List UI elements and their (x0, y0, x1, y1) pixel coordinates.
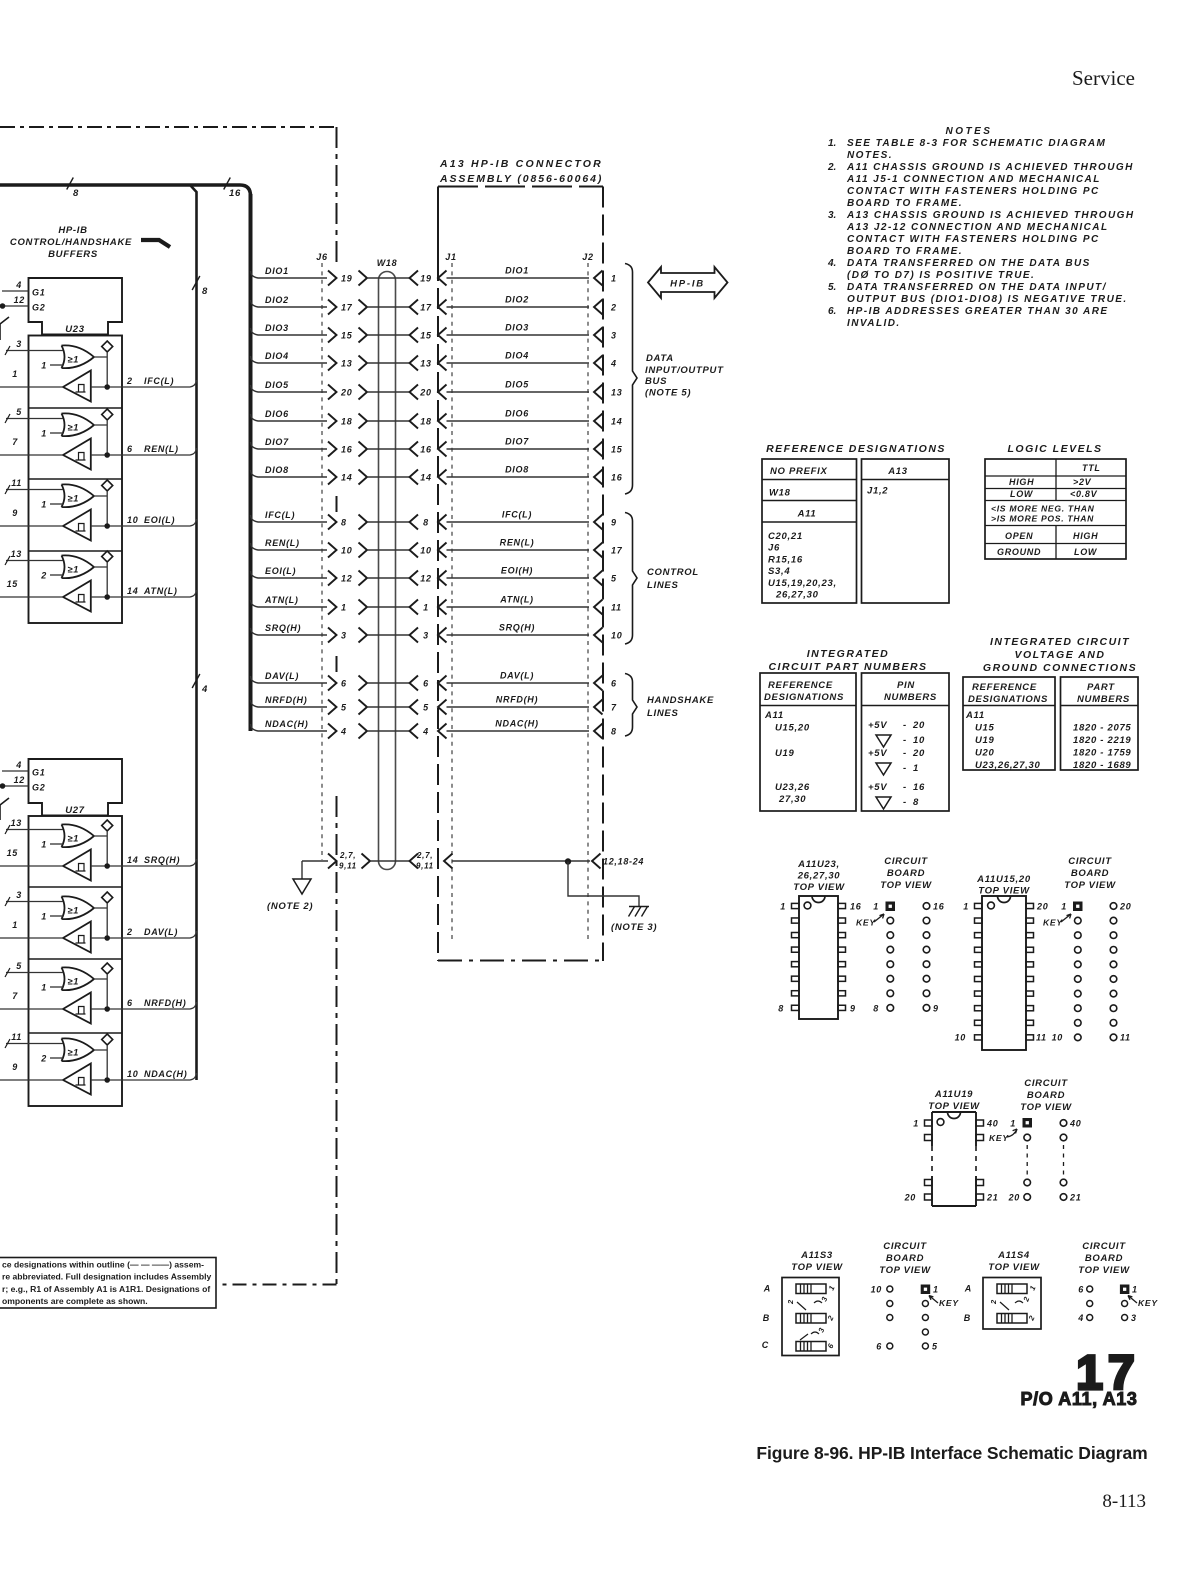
svg-text:GROUND: GROUND (997, 547, 1041, 557)
IC U23 gate box outline (29, 336, 123, 624)
svg-text:12: 12 (14, 295, 25, 305)
U15 socket hole pin 19 (1110, 917, 1117, 924)
svg-text:G1: G1 (32, 768, 45, 778)
svg-text:18: 18 (420, 417, 431, 427)
svg-text:DIO1: DIO1 (265, 266, 289, 276)
hysteresis buffer U27b (schmitt) (63, 922, 91, 953)
partial gate fragment at left page edge (above U27) (0, 798, 9, 820)
connector J1 pin 4 arrows for NDAC(H) (410, 724, 447, 739)
wire DIO3 through cable W18 (367, 334, 410, 336)
svg-text:16: 16 (341, 445, 353, 455)
U15 DIP pin 6 (left) (975, 976, 983, 981)
wire REN(L) from J1 to connector J2 pin 17 (447, 538, 590, 551)
svg-text:CIRCUIT: CIRCUIT (883, 1241, 927, 1252)
connector J1 pin 10 arrows for REN(L) (410, 543, 447, 558)
svg-text:6: 6 (876, 1342, 882, 1352)
svg-text:≥1: ≥1 (68, 977, 80, 987)
label: HP-IB CONTROL/HANDSHAKE BUFFERS with pointer (10, 225, 170, 260)
svg-text:1: 1 (41, 429, 47, 439)
svg-text:27,30: 27,30 (778, 794, 806, 805)
wire DIO4 from J1 to connector J2 pin 4 (447, 351, 590, 364)
svg-text:11: 11 (611, 603, 622, 613)
U23 socket hole pin 12 (923, 961, 930, 968)
svg-text:4: 4 (15, 760, 22, 770)
svg-text:16: 16 (229, 188, 241, 199)
U15 DIP pin 14 (right) (1026, 991, 1034, 996)
connector J2 pin 15 arrow for DIO7 (594, 442, 623, 457)
hysteresis buffer U23b (schmitt) (63, 439, 91, 470)
pin row U15,20 +5V - 20 (868, 720, 925, 731)
svg-text:2: 2 (610, 303, 617, 313)
connector J2 pin 17 arrow for REN(L) (594, 543, 623, 558)
U19 DIP pin 19 (left) (925, 1180, 933, 1186)
U15 DIP pin 2 (left) (975, 918, 983, 923)
svg-text:12: 12 (14, 775, 25, 785)
svg-text:DIO2: DIO2 (505, 295, 529, 305)
svg-text:6.: 6. (828, 306, 836, 317)
svg-text:1: 1 (12, 920, 18, 930)
svg-text:4.: 4. (827, 258, 836, 269)
svg-text:BOARD: BOARD (1027, 1090, 1065, 1101)
wire DIO3 from J1 to connector J2 pin 3 (447, 323, 590, 336)
svg-text:r; e.g., R1 of Assembly A1 is: r; e.g., R1 of Assembly A1 is A1R1. Desi… (2, 1284, 210, 1294)
svg-text:IFC(L): IFC(L) (502, 510, 532, 520)
U23 socket hole pin 16 (923, 903, 930, 910)
svg-text:A11U23,: A11U23, (797, 859, 840, 870)
wire input pin 3 to OR gate U23a (5, 339, 63, 355)
svg-text:17: 17 (611, 546, 623, 556)
svg-text:TOP VIEW: TOP VIEW (880, 880, 932, 891)
svg-text:<0.8V: <0.8V (1070, 489, 1098, 499)
svg-text:A13 CHASSIS GROUND IS ACHIEVED: A13 CHASSIS GROUND IS ACHIEVED THROUGH (846, 210, 1135, 221)
open-collector diamond indicator U23b (102, 409, 113, 420)
svg-text:1: 1 (780, 902, 786, 912)
svg-text:U15,19,20,23,: U15,19,20,23, (768, 578, 837, 589)
IC U23 header box (enable section) (29, 278, 123, 335)
connector J2 pin 1 arrow for DIO1 (594, 271, 617, 286)
U19 DIP pin 22 (right) (976, 1180, 984, 1186)
svg-text:20: 20 (1119, 902, 1131, 912)
connector J1 pin 8 arrows for IFC(L) (410, 515, 447, 530)
svg-text:10: 10 (955, 1033, 966, 1043)
connector J1 pin 20 arrows for DIO5 (410, 385, 447, 400)
U15 socket hole pin 6 (1075, 976, 1082, 983)
U15 socket hole pin 15 (1110, 976, 1117, 983)
svg-text:5: 5 (611, 574, 617, 584)
svg-text:NDAC(H): NDAC(H) (265, 719, 308, 729)
wire EOI(L) through cable W18 (367, 577, 410, 579)
wire REN(L) through cable W18 (367, 549, 410, 551)
svg-text:NRFD(H): NRFD(H) (144, 998, 186, 1008)
connector J6 pin 14 arrows for DIO8 (328, 470, 367, 485)
wire DIO8 from J1 to connector J2 pin 16 (447, 465, 590, 478)
connector J1 pin 13 arrows for DIO4 (410, 356, 447, 371)
connector J1 pin 5 arrows for NRFD(H) (410, 700, 447, 715)
svg-text:G2: G2 (32, 783, 45, 793)
switch S3 section B (763, 1313, 836, 1323)
OR gate U27 section c (≥1) (62, 967, 95, 990)
junction dot U23d output (91, 594, 122, 600)
svg-text:2: 2 (126, 376, 133, 386)
svg-text:>2V: >2V (1073, 477, 1092, 487)
svg-text:TTL: TTL (1082, 463, 1101, 473)
svg-text:15: 15 (611, 445, 623, 455)
svg-text:DIO1: DIO1 (505, 266, 529, 276)
bus width slash /16 on horizontal bus (224, 178, 241, 200)
svg-text:U15: U15 (975, 723, 995, 734)
bus rail right heavy (signal fan-out to J6) (249, 194, 253, 731)
wire SRQ(H) from bus rail to connector J6 pin 3 (251, 623, 328, 635)
connector J2 pin 3 arrow for DIO3 (594, 328, 617, 343)
connector J2 pin 7 arrow for NRFD(H) (594, 700, 617, 715)
wire buffer output pin 7 of U23b (0, 437, 63, 455)
wire DIO5 through cable W18 (367, 391, 410, 393)
svg-text:20: 20 (912, 720, 925, 731)
svg-text:2: 2 (786, 1299, 795, 1305)
svg-text:BOARD: BOARD (886, 1253, 924, 1264)
circuit board top view title for S3 (879, 1241, 931, 1276)
svg-text:<IS MORE NEG. THAN: <IS MORE NEG. THAN (991, 504, 1095, 514)
U15 DIP pin 12 (right) (1026, 1020, 1034, 1025)
wire OR output to junction U27a (94, 831, 107, 866)
U23 DIP pin 8 (left) (792, 1005, 800, 1010)
U15 socket hole pin 20 (1110, 903, 1117, 910)
svg-text:4: 4 (610, 359, 617, 369)
KEY label for U23 socket (856, 914, 884, 928)
svg-text:DIO3: DIO3 (505, 323, 529, 333)
svg-text:P/O A11, A13: P/O A11, A13 (1021, 1389, 1138, 1409)
svg-text:U19: U19 (775, 748, 795, 759)
wire input pin 3 to OR gate U27b (5, 890, 63, 906)
U23 socket hole pin 4 (887, 946, 894, 953)
U23 DIP pin 1 (left) (792, 903, 800, 908)
note 6 text (828, 306, 1109, 329)
svg-text:DIO5: DIO5 (505, 380, 529, 390)
U15 DIP pin 9 (left) (975, 1020, 983, 1025)
svg-text:J2: J2 (582, 252, 593, 262)
svg-text:1820 - 2075: 1820 - 2075 (1073, 723, 1131, 734)
svg-text:re abbreviated. Full designat: re abbreviated. Full designation include… (2, 1272, 212, 1282)
svg-text:14: 14 (127, 855, 138, 865)
svg-text:SRQ(H): SRQ(H) (499, 623, 535, 633)
S3 socket left column holes (871, 1285, 893, 1352)
svg-text:16: 16 (420, 445, 432, 455)
svg-text:8: 8 (611, 727, 617, 737)
U15 socket corner labels (1052, 902, 1132, 1043)
bus rail left (control/handshake collector) (191, 186, 197, 1081)
wire SRQ(H) from J1 to connector J2 pin 10 (447, 623, 590, 636)
connector J1 pin 1 arrows for ATN(L) (410, 600, 447, 615)
svg-text:6: 6 (127, 444, 133, 454)
svg-text:2: 2 (989, 1299, 998, 1305)
svg-text:INVALID.: INVALID. (847, 318, 901, 329)
svg-text:HP-IB ADDRESSES GREATER THAN 3: HP-IB ADDRESSES GREATER THAN 30 ARE (847, 306, 1109, 317)
U15 DIP pin 19 (right) (1026, 918, 1034, 923)
wire DIO6 from J1 to connector J2 pin 14 (447, 409, 590, 422)
svg-text:KEY: KEY (939, 1298, 959, 1308)
constant 1 input to OR gate U27c (41, 983, 63, 993)
U15 socket hole pin 7 (1075, 990, 1082, 997)
svg-text:1: 1 (963, 902, 969, 912)
svg-text:10: 10 (913, 735, 925, 746)
svg-text:A11S4: A11S4 (997, 1250, 1030, 1261)
wire DIO5 from bus rail to connector J6 pin 20 (251, 380, 328, 392)
svg-text:TOP VIEW: TOP VIEW (978, 886, 1030, 897)
svg-text:20: 20 (340, 388, 352, 398)
connector J2 label and pin line (582, 252, 593, 940)
svg-text:U20: U20 (975, 748, 995, 759)
hysteresis buffer U23a (schmitt) (63, 371, 91, 402)
svg-text:A11: A11 (764, 710, 784, 721)
svg-text:REN(L): REN(L) (265, 538, 300, 548)
circuit board top view for U23 sockets (880, 856, 932, 891)
svg-text:PART: PART (1087, 682, 1115, 693)
constant 1 input to OR gate U27b (41, 912, 63, 922)
wire DIO6 from bus rail to connector J6 pin 18 (251, 409, 328, 421)
ground symbol (NOTE 2) for A11 side (267, 861, 313, 912)
svg-text:BOARD: BOARD (1085, 1253, 1123, 1264)
svg-text:8: 8 (913, 797, 919, 808)
svg-text:A13: A13 (887, 466, 908, 477)
U23 socket hole pin 11 (923, 975, 930, 982)
U15 DIP pin 11 (right) (1026, 1035, 1034, 1040)
wire EOI(H) from J1 to connector J2 pin 5 (447, 566, 590, 579)
U23 DIP pin 16 (right) (838, 903, 846, 908)
open-collector diamond indicator U27c (102, 963, 113, 974)
svg-text:ATN(L): ATN(L) (264, 595, 299, 605)
pin row U19 +5V - 20 (868, 748, 925, 759)
svg-text:4: 4 (422, 727, 429, 737)
U23 DIP pin 6 (left) (792, 976, 800, 981)
svg-text:DATA TRANSFERRED ON THE DATA I: DATA TRANSFERRED ON THE DATA INPUT/ (847, 282, 1107, 293)
U19 DIP pin 1 (left) (925, 1120, 933, 1126)
OR gate U27 section b (≥1) (62, 896, 95, 919)
svg-text:J1: J1 (445, 252, 456, 262)
svg-text:CIRCUIT: CIRCUIT (1024, 1078, 1068, 1089)
svg-text:HANDSHAKE: HANDSHAKE (647, 695, 714, 706)
svg-text:R15,16: R15,16 (768, 554, 803, 565)
connector J1 pin 16 arrows for DIO7 (410, 442, 447, 457)
junction dot U27d output (91, 1077, 122, 1083)
connector J1 pin 6 arrows for DAV(L) (410, 676, 447, 691)
svg-text:9: 9 (611, 518, 617, 528)
svg-text:3: 3 (611, 331, 617, 341)
U15 socket hole pin 2 (1075, 917, 1082, 924)
wire IFC(L) from J1 to connector J2 pin 9 (447, 510, 590, 523)
svg-text:11: 11 (1120, 1033, 1131, 1043)
svg-text:LINES: LINES (647, 580, 678, 591)
wire DIO7 through cable W18 (367, 448, 410, 450)
U19 DIP pin 21 (right) (976, 1194, 984, 1200)
svg-text:EOI(L): EOI(L) (144, 515, 175, 525)
svg-text:KEY: KEY (1138, 1298, 1158, 1308)
svg-text:1.: 1. (828, 138, 836, 149)
svg-text:≥1: ≥1 (68, 834, 80, 844)
svg-text:4: 4 (201, 684, 208, 695)
U19 DIP pin 39 (right) (976, 1135, 984, 1141)
bus width slash /4 on left rail (192, 674, 208, 695)
switch S4 section A (964, 1284, 1038, 1294)
svg-text:TOP VIEW: TOP VIEW (1020, 1102, 1072, 1113)
svg-text:NUMBERS: NUMBERS (1077, 694, 1130, 705)
wire DIO1 from bus rail to connector J6 pin 19 (251, 266, 328, 278)
svg-text:KEY: KEY (1043, 918, 1063, 928)
IC U23 cell divider (29, 550, 123, 552)
U15 socket hole pin 3 (1075, 932, 1082, 939)
open-collector diamond indicator U27b (102, 892, 113, 903)
svg-text:14: 14 (341, 473, 352, 483)
wire DIO4 through cable W18 (367, 362, 410, 364)
U23 socket hole pin 13 (923, 946, 930, 953)
svg-text:9: 9 (12, 508, 18, 518)
wire input pin 5 to OR gate U27c (5, 961, 63, 977)
svg-text:9: 9 (933, 1004, 939, 1014)
U23 DIP pin 11 (right) (838, 976, 846, 981)
wire buffer output pin 9 of U23c (0, 508, 63, 526)
connector J2 pin 14 arrow for DIO6 (594, 414, 622, 429)
svg-text:5: 5 (341, 703, 347, 713)
svg-text:10: 10 (611, 631, 622, 641)
connector J6 label and pin line (316, 252, 328, 860)
svg-text:12: 12 (341, 574, 352, 584)
wire input pin 13 to OR gate U27a (5, 818, 63, 834)
connector J2 pin 4 arrow for DIO4 (594, 356, 617, 371)
U23 socket hole pin 2 (887, 917, 894, 924)
open-collector diamond indicator U27a (102, 820, 113, 831)
svg-text:DIO5: DIO5 (265, 380, 289, 390)
svg-text:A13 J2-12 CONNECTION AND MECHA: A13 J2-12 CONNECTION AND MECHANICAL (846, 222, 1109, 233)
svg-text:1: 1 (341, 603, 347, 613)
svg-text:9,11: 9,11 (339, 862, 357, 871)
svg-text:LINES: LINES (647, 708, 678, 719)
U15 DIP pin 7 (left) (975, 991, 983, 996)
svg-text:6: 6 (127, 998, 133, 1008)
svg-text:BOARD: BOARD (1071, 868, 1109, 879)
S4 socket right column holes (1122, 1313, 1137, 1323)
svg-text:14: 14 (611, 417, 622, 427)
partial gate fragment at left page edge (above U23) (0, 317, 9, 340)
wire ATN(L) from bus rail to connector J6 pin 1 (251, 595, 328, 607)
pin row U23,26,27,30 gnd - 8 (876, 797, 919, 809)
svg-text:1: 1 (913, 763, 919, 774)
wire DIO3 from bus rail to connector J6 pin 15 (251, 323, 328, 335)
connector J6 pin 15 arrows for DIO3 (328, 328, 367, 343)
connector J2 pin 2 arrow for DIO2 (594, 300, 617, 315)
hysteresis buffer U27d (schmitt) (63, 1064, 91, 1095)
svg-text:-: - (903, 763, 907, 774)
switch assembly A11S4 top view title (988, 1250, 1040, 1273)
svg-text:DAV(L): DAV(L) (144, 927, 178, 937)
wire DIO6 through cable W18 (367, 420, 410, 422)
wire DIO7 from J1 to connector J2 pin 15 (447, 437, 590, 450)
U23 DIP pin 2 (left) (792, 918, 800, 923)
connector J6 pin 16 arrows for DIO7 (328, 442, 367, 457)
U15 DIP pin 10 (left) (975, 1035, 983, 1040)
U23 socket hole pin 10 (923, 990, 930, 997)
U15 DIP pin 13 (right) (1026, 1006, 1034, 1011)
svg-text:A11S3: A11S3 (800, 1250, 833, 1261)
wire OR output to junction U27b (94, 903, 107, 938)
connector J6 pin 12 arrows for EOI(L) (328, 571, 367, 586)
svg-text:A: A (964, 1284, 972, 1294)
svg-text:1: 1 (933, 1285, 939, 1295)
svg-text:A11 CHASSIS GROUND IS ACHIEVED: A11 CHASSIS GROUND IS ACHIEVED THROUGH (846, 162, 1134, 173)
svg-text:≥1: ≥1 (68, 565, 80, 575)
svg-text:14: 14 (127, 586, 138, 596)
svg-text:HP-IB: HP-IB (670, 279, 705, 290)
wire DIO7 from bus rail to connector J6 pin 16 (251, 437, 328, 449)
wire DAV(L) from bus rail to connector J6 pin 6 (251, 671, 328, 683)
svg-text:DIO4: DIO4 (505, 351, 529, 361)
svg-text:J1,2: J1,2 (867, 486, 888, 497)
svg-text:15: 15 (341, 331, 353, 341)
wire OR output to junction U27c (94, 974, 107, 1009)
wire DIO2 from bus rail to connector J6 pin 17 (251, 295, 328, 307)
svg-text:+5V: +5V (868, 720, 887, 731)
bus width slash /8 on horizontal bus (67, 178, 79, 200)
svg-text:17: 17 (420, 303, 432, 313)
svg-text:2: 2 (40, 1054, 47, 1064)
svg-text:3: 3 (341, 631, 347, 641)
svg-text:1: 1 (873, 902, 879, 912)
svg-text:4: 4 (1077, 1313, 1084, 1323)
connector J2 pin 8 arrow for NDAC(H) (594, 724, 617, 739)
svg-text:DIO6: DIO6 (505, 409, 529, 419)
wire DIO1 through cable W18 (367, 277, 410, 279)
svg-text:21: 21 (986, 1193, 998, 1203)
U23 DIP pin 9 (right) (838, 1005, 846, 1010)
svg-text:4: 4 (15, 280, 22, 290)
U15 DIP pin 1 (left) (975, 903, 983, 908)
svg-text:4: 4 (340, 727, 347, 737)
table IC PART NUMBERS right column pin numbers (862, 673, 950, 811)
U23 socket key pad pin 1 (873, 902, 895, 912)
svg-text:TOP VIEW: TOP VIEW (879, 1265, 931, 1276)
wire NDAC(H) pin 10 from U27d to bus rail (122, 1069, 197, 1080)
svg-text:10: 10 (341, 546, 352, 556)
svg-text:21: 21 (1069, 1193, 1081, 1203)
svg-text:REFERENCE: REFERENCE (768, 680, 833, 691)
table IC VOLTAGE left column reference designations (963, 677, 1055, 771)
wire DIO8 through cable W18 (367, 476, 410, 478)
svg-text:16: 16 (933, 902, 945, 912)
U19 DIP pin 40 (right) (976, 1120, 984, 1126)
IC U27 cell divider (29, 1032, 123, 1034)
svg-text:NO PREFIX: NO PREFIX (770, 466, 828, 477)
connector J6 pin 13 arrows for DIO4 (328, 356, 367, 371)
connector J2 pin 10 arrow for SRQ(H) (594, 628, 622, 643)
svg-text:≥1: ≥1 (68, 355, 80, 365)
svg-text:INPUT/OUTPUT: INPUT/OUTPUT (645, 365, 724, 376)
svg-text:DAV(L): DAV(L) (500, 671, 534, 681)
svg-text:1: 1 (913, 1119, 919, 1129)
svg-text:SRQ(H): SRQ(H) (144, 855, 180, 865)
svg-text:3.: 3. (828, 210, 836, 221)
svg-text:U23,26,27,30: U23,26,27,30 (975, 760, 1040, 771)
svg-text:3: 3 (16, 339, 22, 349)
IC U27 gate box outline (29, 816, 123, 1106)
svg-text:8: 8 (778, 1004, 784, 1014)
svg-text:U23: U23 (65, 324, 85, 335)
connector J1 pin 15 arrows for DIO3 (410, 328, 447, 343)
svg-text:1: 1 (1132, 1285, 1138, 1295)
svg-text:DIO8: DIO8 (265, 465, 289, 475)
wire OR output to junction U23b (94, 420, 107, 455)
svg-text:PIN: PIN (897, 680, 915, 691)
U23 DIP pin 7 (left) (792, 991, 800, 996)
svg-text:C: C (762, 1340, 769, 1350)
chassis ground symbol (NOTE 3) (611, 907, 657, 934)
